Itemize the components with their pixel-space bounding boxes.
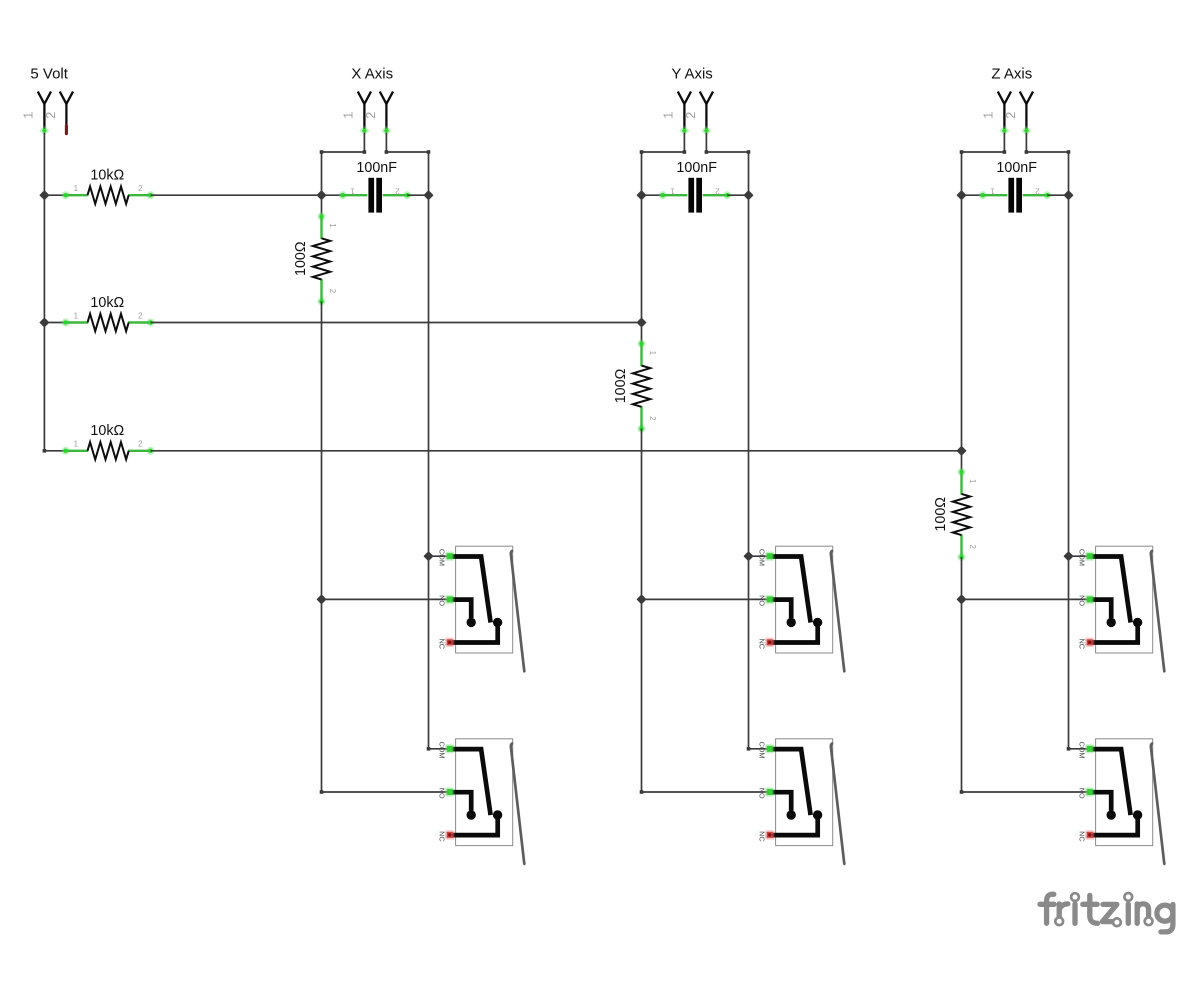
wire Y pin2 drop (705, 133, 707, 152)
svg-text:1: 1 (341, 112, 356, 119)
capacitor 100nF Z body (979, 178, 1052, 213)
svg-text:NC: NC (1077, 639, 1086, 650)
bend X COM2 (427, 747, 431, 751)
wire X pin2 drop (385, 133, 387, 152)
wire Z right vertical (1068, 152, 1070, 556)
junction 5V row1 (40, 191, 49, 200)
wire Y left vertical upper (641, 152, 643, 344)
connector JX pin 1 (358, 92, 371, 131)
svg-text:2: 2 (328, 289, 337, 294)
wire Z pin2 drop (1025, 133, 1027, 152)
resistor 100ohm Z body (953, 468, 970, 561)
wire Y NO2 (642, 791, 770, 793)
svg-text:2: 2 (363, 112, 378, 119)
wire Y cap left stub (642, 194, 663, 196)
wire X right vertical (428, 152, 430, 556)
svg-text:NO: NO (1077, 788, 1086, 799)
switch SX2 (445, 739, 524, 864)
svg-text:1: 1 (74, 311, 79, 320)
svg-text:2: 2 (395, 187, 400, 196)
wire Y bus left (642, 151, 685, 153)
wire Z left vertical lower (961, 557, 963, 599)
wire Z cap left stub (962, 194, 983, 196)
wire row2 to section (151, 322, 642, 324)
wire Z bus right (1026, 151, 1068, 153)
JZ pin1 endpoint (999, 126, 1009, 136)
wire Z cap right stub (1047, 194, 1068, 196)
svg-text:1: 1 (74, 440, 79, 449)
switch SY2 (765, 739, 844, 864)
wire X COM2 (429, 748, 450, 750)
fritzing logo (1040, 894, 1173, 932)
svg-text:1: 1 (350, 187, 355, 196)
wire row1 to section (151, 194, 322, 196)
junction Z COM1 (1064, 552, 1073, 561)
svg-text:2: 2 (138, 440, 143, 449)
svg-text:NC: NC (1077, 831, 1086, 842)
svg-text:NC: NC (437, 831, 446, 842)
svg-text:10kΩ: 10kΩ (90, 295, 124, 311)
wire row2 left stub (44, 322, 65, 324)
connector JZ pin 2 (1020, 92, 1033, 131)
svg-text:COM: COM (757, 549, 766, 566)
wire X bus right (386, 151, 428, 153)
junction X cap right (424, 191, 433, 200)
wire row3 left stub (44, 450, 65, 452)
wire Z NO1 (962, 598, 1090, 600)
wire Z pin1 drop (1003, 133, 1005, 152)
svg-text:1: 1 (328, 223, 337, 228)
junction Y row2 (637, 318, 646, 327)
svg-text:1: 1 (648, 351, 657, 356)
svg-text:2: 2 (683, 112, 698, 119)
svg-text:10kΩ: 10kΩ (90, 423, 124, 439)
junction Y cap left (637, 191, 646, 200)
resistor R2 10k body (62, 314, 155, 331)
wire Z NO2 (962, 791, 1090, 793)
bend Y COM2 (747, 747, 751, 751)
connector J1 pin 1 (38, 92, 51, 131)
svg-text:COM: COM (757, 741, 766, 758)
resistor R3 10k body (62, 442, 155, 459)
resistor 100ohm X body (313, 212, 330, 305)
svg-text:2: 2 (43, 112, 58, 119)
svg-text:NO: NO (757, 788, 766, 799)
switch SZ2 (1085, 739, 1164, 864)
junction Z row3 (957, 446, 966, 455)
wire X left vertical upper (321, 152, 323, 216)
switch SX1 (445, 546, 524, 671)
capacitor 100nF Y body (659, 178, 732, 213)
svg-text:NO: NO (757, 595, 766, 606)
bend Z NO2 (960, 790, 964, 794)
J1 pin1 endpoint (39, 126, 49, 136)
junction Z cap right (1064, 191, 1073, 200)
wire Z bus left (962, 151, 1005, 153)
bend Y bus corners (640, 150, 644, 154)
resistor 100ohm Y body (633, 340, 650, 433)
svg-text:NO: NO (437, 595, 446, 606)
svg-text:Z Axis: Z Axis (991, 65, 1032, 82)
svg-text:NO: NO (437, 788, 446, 799)
bend Y NO2 (640, 790, 644, 794)
svg-text:100nF: 100nF (356, 160, 397, 176)
svg-text:100nF: 100nF (996, 160, 1037, 176)
switch SZ1 (1085, 546, 1164, 671)
connector JY pin 2 (700, 92, 713, 131)
connector JZ pin 1 (998, 92, 1011, 131)
wire X pin1 drop (363, 133, 365, 152)
wire Y right vertical (748, 152, 750, 556)
svg-text:NO: NO (1077, 595, 1086, 606)
wire Y pin1 drop (683, 133, 685, 152)
bend Z bus corners (960, 150, 964, 154)
svg-text:2: 2 (138, 311, 143, 320)
svg-text:100nF: 100nF (676, 160, 717, 176)
wire Z COM1 (1069, 555, 1090, 557)
svg-text:1: 1 (74, 184, 79, 193)
wire Y cap right stub (727, 194, 748, 196)
wire X NO2 (322, 791, 450, 793)
svg-text:X Axis: X Axis (351, 65, 393, 82)
wire Y left vertical lower (641, 429, 643, 600)
svg-text:10kΩ: 10kΩ (90, 168, 124, 184)
connector JY pin 1 (678, 92, 691, 131)
bend X bus corners (320, 150, 324, 154)
svg-text:NC: NC (437, 639, 446, 650)
JY pin1 endpoint (679, 126, 689, 136)
J1 pin2 unconnected tip (65, 126, 68, 134)
wire 5V rail vertical (43, 133, 45, 451)
fritzing logo rings (1055, 917, 1063, 925)
bend 5V row3 (43, 449, 47, 453)
connector JX pin 2 (380, 92, 393, 131)
junction Z cap left (957, 191, 966, 200)
svg-text:COM: COM (437, 549, 446, 566)
junction X COM1 (424, 552, 433, 561)
switch SY1 (765, 546, 844, 671)
junction Y cap right (744, 191, 753, 200)
junction Y COM1 (744, 552, 753, 561)
wire Y bus right (706, 151, 748, 153)
svg-text:100Ω: 100Ω (933, 497, 949, 532)
JX pin1 endpoint (359, 126, 369, 136)
svg-text:2: 2 (138, 184, 143, 193)
svg-text:2: 2 (648, 416, 657, 421)
svg-text:COM: COM (1077, 549, 1086, 566)
wire X NO1 (322, 598, 450, 600)
wire X left vertical lower (321, 301, 323, 599)
svg-text:1: 1 (968, 479, 977, 484)
svg-text:1: 1 (981, 112, 996, 119)
svg-text:NC: NC (757, 639, 766, 650)
svg-text:2: 2 (1003, 112, 1018, 119)
wire X cap left stub (322, 194, 343, 196)
capacitor 100nF X body (339, 178, 412, 213)
svg-text:1: 1 (661, 112, 676, 119)
svg-text:1: 1 (670, 187, 675, 196)
wire X cap right stub (407, 194, 428, 196)
svg-text:1: 1 (990, 187, 995, 196)
svg-text:COM: COM (437, 741, 446, 758)
svg-text:COM: COM (1077, 741, 1086, 758)
junction X cap left (317, 191, 326, 200)
svg-text:2: 2 (715, 187, 720, 196)
JX pin2 endpoint (381, 126, 391, 136)
bend Z COM2 (1067, 747, 1071, 751)
JZ pin2 endpoint (1021, 126, 1031, 136)
junction X NO1 (317, 595, 326, 604)
svg-text:5 Volt: 5 Volt (30, 65, 68, 82)
junction 5V row2 (40, 318, 49, 327)
svg-text:2: 2 (968, 544, 977, 549)
JY pin2 endpoint (701, 126, 711, 136)
svg-text:NC: NC (757, 831, 766, 842)
wire X COM1 (429, 555, 450, 557)
svg-text:100Ω: 100Ω (613, 368, 629, 403)
bend X NO2 (320, 790, 324, 794)
svg-text:Y Axis: Y Axis (671, 65, 712, 82)
svg-text:2: 2 (1035, 187, 1040, 196)
wire X bus left (322, 151, 365, 153)
wire Z left vertical upper (961, 152, 963, 472)
svg-text:1: 1 (21, 112, 36, 119)
resistor R1 10k body (62, 187, 155, 204)
svg-text:100Ω: 100Ω (293, 241, 309, 276)
wire Y NO1 (642, 598, 770, 600)
wire Z COM2 (1069, 748, 1090, 750)
connector J1 pin 2 (60, 92, 73, 131)
wire Y COM2 (749, 748, 770, 750)
wire Y COM1 (749, 555, 770, 557)
wire row1 left stub (44, 194, 65, 196)
junction Y NO1 (637, 595, 646, 604)
wire row3 to section (151, 450, 962, 452)
junction Z NO1 (957, 595, 966, 604)
